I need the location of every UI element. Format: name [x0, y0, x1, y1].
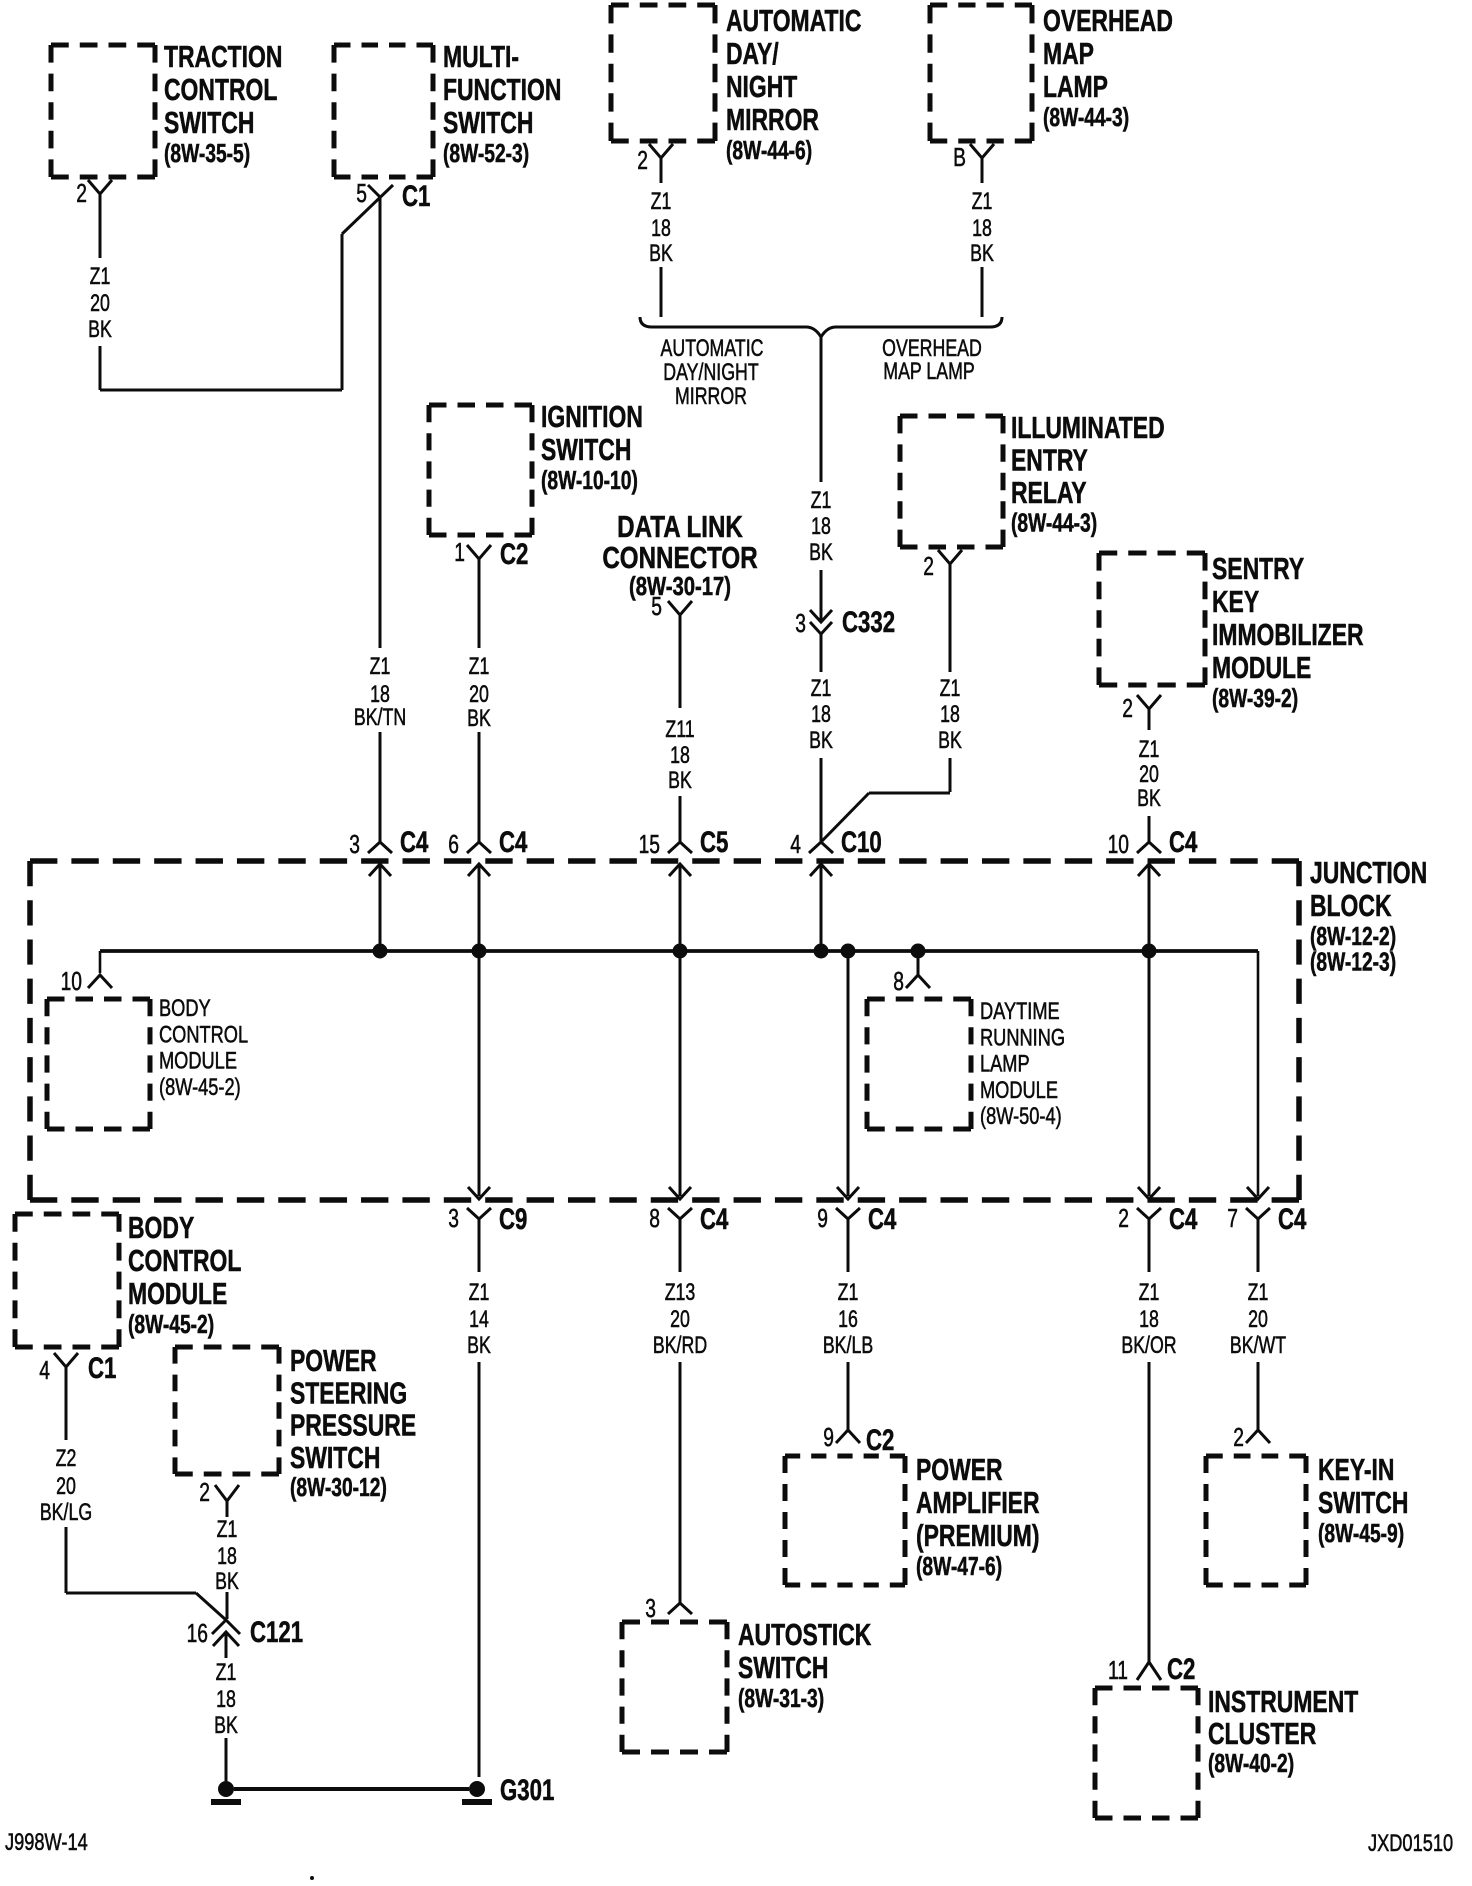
- wire label Z1 18 BK (below C332): [809, 676, 833, 754]
- svg-text:MAP LAMP: MAP LAMP: [883, 359, 974, 385]
- svg-text:(8W-45-9): (8W-45-9): [1318, 1518, 1404, 1548]
- svg-text:BK/TN: BK/TN: [354, 705, 406, 731]
- component Ignition Switch (8W-10-10) dashed box + label: [429, 399, 643, 535]
- in-line connector C121 pin 16: [187, 1615, 303, 1658]
- svg-text:LAMP: LAMP: [980, 1050, 1030, 1077]
- svg-text:MULTI-: MULTI-: [443, 39, 519, 74]
- pin 1 connector C2 of ignition switch: [454, 537, 528, 573]
- svg-text:2: 2: [76, 178, 87, 208]
- svg-text:MODULE: MODULE: [159, 1047, 237, 1074]
- svg-text:18: 18: [811, 514, 831, 540]
- pin 2 connector of traction control switch: [76, 178, 112, 208]
- svg-text:ENTRY: ENTRY: [1011, 442, 1088, 477]
- svg-text:DAYTIME: DAYTIME: [980, 998, 1060, 1025]
- node splice dot sentry wire on ground bus: [1142, 944, 1157, 959]
- wire label Z13 20 BK/RD: [653, 1280, 707, 1359]
- wire label Z1 18 BK (relay): [938, 676, 962, 754]
- svg-text:C1: C1: [88, 1351, 116, 1385]
- svg-text:C121: C121: [250, 1615, 303, 1649]
- svg-text:20: 20: [1139, 762, 1159, 788]
- svg-text:5: 5: [651, 591, 662, 621]
- wire from bus to junction block bottom pin 3 C9 (ignition column): [478, 951, 481, 1196]
- pin 2 connector of power steering pressure switch: [199, 1477, 239, 1515]
- svg-text:BK: BK: [809, 728, 833, 754]
- svg-text:(8W-45-2): (8W-45-2): [128, 1309, 214, 1339]
- wire Z1 18 BK from mirror pin 2 to splice brace: [660, 170, 663, 317]
- svg-text:Z1: Z1: [1139, 1280, 1160, 1306]
- svg-text:BK: BK: [88, 317, 112, 343]
- svg-text:BK: BK: [809, 540, 833, 566]
- pin 2 connector of automatic day/night mirror: [637, 144, 673, 175]
- wire label Z1 18 BK (mirror): [649, 189, 673, 267]
- svg-text:2: 2: [1122, 693, 1133, 723]
- svg-text:(PREMIUM): (PREMIUM): [916, 1518, 1040, 1553]
- pin B connector of overhead map lamp: [953, 142, 994, 172]
- wire label Z11 18 BK: [665, 717, 694, 794]
- junction block bottom connector pin 9 C4: [817, 1187, 896, 1236]
- svg-text:C4: C4: [400, 825, 429, 859]
- svg-text:BLOCK: BLOCK: [1310, 888, 1392, 923]
- svg-text:AUTOSTICK: AUTOSTICK: [738, 1617, 872, 1652]
- svg-text:C4: C4: [1169, 1202, 1198, 1236]
- wire Z1 18 BK from C121 to ground G301: [225, 1738, 228, 1781]
- svg-text:BODY: BODY: [128, 1210, 194, 1245]
- svg-text:BK: BK: [649, 241, 673, 267]
- svg-text:J998W-14: J998W-14: [5, 1829, 88, 1856]
- svg-text:4: 4: [39, 1355, 50, 1385]
- svg-text:FUNCTION: FUNCTION: [443, 72, 561, 107]
- svg-text:ILLUMINATED: ILLUMINATED: [1011, 410, 1165, 445]
- svg-text:C9: C9: [499, 1202, 527, 1236]
- svg-text:Z1: Z1: [1248, 1280, 1269, 1306]
- svg-text:SWITCH: SWITCH: [290, 1439, 380, 1474]
- junction block bottom connector pin 8 C4: [649, 1187, 728, 1236]
- svg-text:18: 18: [1139, 1307, 1159, 1333]
- svg-text:BK: BK: [215, 1569, 239, 1595]
- wire Z1 20 BK from traction control pin 2 to multi-function switch pin 5: [100, 185, 393, 390]
- svg-text:BK: BK: [467, 706, 491, 732]
- svg-text:3: 3: [645, 1593, 656, 1623]
- stray mark: [310, 1876, 314, 1880]
- component Daytime Running Lamp Module (8W-50-4) dashed box + label: [867, 998, 1065, 1130]
- wire Z1 14 BK from junction block pin 3 C9 to ground G301: [478, 1219, 481, 1777]
- svg-text:18: 18: [670, 743, 690, 769]
- pin 11 connector C2 of instrument cluster: [1108, 1652, 1195, 1686]
- component Multi-Function Switch (8W-52-3) dashed box + label: [334, 39, 561, 177]
- svg-text:4: 4: [790, 829, 801, 859]
- svg-text:(8W-35-5): (8W-35-5): [164, 138, 250, 168]
- svg-text:2: 2: [199, 1477, 210, 1507]
- svg-text:BK: BK: [1137, 786, 1161, 812]
- pin 5 connector C1 of multi-function switch: [356, 178, 430, 213]
- svg-text:8: 8: [649, 1203, 660, 1233]
- svg-text:RELAY: RELAY: [1011, 475, 1087, 510]
- svg-text:C2: C2: [500, 537, 528, 571]
- svg-text:(8W-50-4): (8W-50-4): [980, 1103, 1062, 1130]
- pin 4 connector C1 of body control module: [39, 1351, 116, 1385]
- wire Z1 18 BK/TN from multi-function switch pin 5 to junction block pin 3 C4: [379, 197, 382, 842]
- svg-text:3: 3: [349, 829, 360, 859]
- svg-text:Z1: Z1: [940, 676, 961, 702]
- node splice dot multi-function wire on ground bus: [373, 944, 388, 959]
- svg-text:1: 1: [454, 537, 465, 567]
- svg-text:IMMOBILIZER: IMMOBILIZER: [1212, 617, 1364, 652]
- wire label Z2 20 BK/LG: [40, 1446, 92, 1526]
- svg-text:C1: C1: [402, 179, 430, 213]
- in-line connector C332 pin 3: [795, 605, 895, 639]
- svg-text:18: 18: [216, 1687, 236, 1713]
- svg-text:2: 2: [1233, 1422, 1244, 1452]
- junction block bottom connector pin 3 C9: [448, 1187, 527, 1236]
- svg-text:2: 2: [637, 145, 648, 175]
- svg-text:Z1: Z1: [469, 1280, 490, 1306]
- wire label Z1 16 BK/LB: [823, 1280, 873, 1359]
- svg-text:20: 20: [90, 291, 110, 317]
- pin 2 connector of illuminated entry relay: [923, 550, 962, 581]
- svg-text:CONTROL: CONTROL: [128, 1243, 241, 1278]
- svg-text:(8W-30-17): (8W-30-17): [629, 572, 731, 601]
- svg-text:Z1: Z1: [217, 1517, 238, 1543]
- wire Z1 16 BK/LB from junction block pin 9 C4 to power amplifier: [847, 1219, 850, 1430]
- component Body Control Module (8W-45-2) inside junction block dashed box + label: [47, 995, 248, 1129]
- wire Z1 18 BK/OR from junction block pin 2 C4 to instrument cluster: [1148, 1219, 1151, 1662]
- svg-text:C4: C4: [700, 1202, 729, 1236]
- wire Z1 18 BK from C332 to junction block pin 4 C10: [820, 634, 823, 841]
- component Sentry Key Immobilizer Module (8W-39-2) dashed box + label: [1099, 551, 1364, 713]
- svg-text:BK: BK: [970, 241, 994, 267]
- svg-text:SWITCH: SWITCH: [1318, 1485, 1408, 1520]
- wire Z1 18 BK from map lamp pin B to splice brace: [981, 170, 984, 317]
- svg-text:(8W-39-2): (8W-39-2): [1212, 683, 1298, 713]
- svg-text:9: 9: [823, 1422, 834, 1452]
- svg-text:MIRROR: MIRROR: [675, 384, 747, 410]
- node splice dot data link wire on ground bus: [673, 944, 688, 959]
- svg-text:C2: C2: [866, 1423, 894, 1457]
- svg-text:BK/LG: BK/LG: [40, 1500, 92, 1526]
- junction block top connector pin 15 C5: [639, 825, 729, 951]
- svg-text:6: 6: [448, 829, 459, 859]
- svg-text:Z11: Z11: [665, 717, 694, 743]
- ground terminal left at G301: [211, 1781, 241, 1802]
- pin 5 connector of data link connector: [651, 591, 692, 629]
- svg-text:BODY: BODY: [159, 995, 211, 1022]
- wire label Z1 18 BK (map lamp): [970, 189, 994, 267]
- wire Z2 20 BK/LG from body control module pin 4 to connector C121: [66, 1381, 226, 1620]
- svg-text:AMPLIFIER: AMPLIFIER: [916, 1485, 1040, 1520]
- svg-text:B: B: [953, 142, 966, 172]
- svg-text:SWITCH: SWITCH: [164, 105, 254, 140]
- wire Z13 20 BK/RD from junction block pin 8 C4 to autostick switch: [679, 1219, 682, 1603]
- svg-text:Z1: Z1: [972, 189, 993, 215]
- svg-text:MODULE: MODULE: [128, 1276, 227, 1311]
- svg-text:DATA LINK: DATA LINK: [617, 509, 743, 544]
- junction block top connector pin 3 C4: [349, 825, 428, 951]
- svg-text:5: 5: [356, 178, 367, 208]
- svg-text:20: 20: [670, 1307, 690, 1333]
- splice brace joining mirror and map lamp wires: [640, 317, 1002, 410]
- svg-text:Z1: Z1: [216, 1660, 237, 1686]
- svg-text:CONTROL: CONTROL: [164, 72, 277, 107]
- svg-text:IGNITION: IGNITION: [541, 399, 643, 434]
- wire Z1 18 BK from splice brace to connector C332: [820, 337, 823, 620]
- svg-text:18: 18: [972, 216, 992, 242]
- ground G301 terminal and label: [462, 1773, 554, 1807]
- wire Z1 18 BK from illuminated entry relay to junction block pin 4 C10: [822, 578, 950, 841]
- svg-text:16: 16: [187, 1618, 208, 1648]
- wire label Z1 18 BK/TN: [354, 654, 406, 731]
- svg-text:OVERHEAD: OVERHEAD: [1043, 3, 1173, 38]
- svg-text:Z1: Z1: [651, 189, 672, 215]
- svg-text:BK: BK: [938, 728, 962, 754]
- svg-text:Z13: Z13: [665, 1280, 696, 1306]
- component Illuminated Entry Relay (8W-44-3) dashed box + label: [900, 410, 1165, 547]
- svg-text:DAY/: DAY/: [726, 36, 779, 71]
- svg-text:KEY-IN: KEY-IN: [1318, 1452, 1394, 1487]
- pin 3 connector of autostick switch: [645, 1593, 692, 1623]
- svg-text:C5: C5: [700, 825, 728, 859]
- svg-text:10: 10: [61, 966, 82, 996]
- wire label Z1 20 BK (traction): [88, 264, 112, 343]
- node splice dot ignition wire on ground bus: [472, 944, 487, 959]
- svg-text:C10: C10: [841, 825, 882, 859]
- component Automatic Day/Night Mirror (8W-44-6) dashed box + label: [611, 3, 861, 165]
- svg-text:BK: BK: [214, 1713, 238, 1739]
- wire label Z1 18 BK (below C121): [214, 1660, 238, 1739]
- pin 10 connector of body control module (junction block internal): [61, 966, 112, 996]
- junction block bottom connector pin 2 C4: [1118, 1187, 1197, 1236]
- svg-text:Z1: Z1: [838, 1280, 859, 1306]
- component Data Link Connector (8W-30-17) label: [602, 509, 757, 600]
- node splice dot daytime running lamp branch on ground bus: [911, 944, 926, 959]
- svg-text:SENTRY: SENTRY: [1212, 551, 1304, 586]
- wire ground bus between ground terminals: [234, 1787, 469, 1791]
- footer drawing number JXD01510: [1368, 1830, 1453, 1857]
- svg-text:AUTOMATIC: AUTOMATIC: [726, 3, 861, 38]
- svg-text:BK/WT: BK/WT: [1230, 1333, 1286, 1359]
- component Key-In Switch (8W-45-9) dashed box + label: [1206, 1452, 1408, 1585]
- svg-text:JXD01510: JXD01510: [1368, 1830, 1453, 1857]
- svg-text:Z1: Z1: [370, 654, 391, 680]
- wire ground bus inside junction block: [100, 951, 1258, 1196]
- svg-text:14: 14: [469, 1307, 489, 1333]
- wire Z1 20 BK/WT from junction block pin 7 C4 to key-in switch: [1257, 1219, 1260, 1430]
- svg-text:SWITCH: SWITCH: [443, 105, 533, 140]
- svg-text:MAP: MAP: [1043, 36, 1094, 71]
- svg-text:3: 3: [795, 608, 806, 638]
- svg-text:C332: C332: [842, 605, 895, 639]
- svg-text:AUTOMATIC: AUTOMATIC: [661, 336, 764, 362]
- svg-text:(8W-31-3): (8W-31-3): [738, 1683, 824, 1713]
- svg-text:PRESSURE: PRESSURE: [290, 1407, 416, 1442]
- svg-text:SWITCH: SWITCH: [541, 432, 631, 467]
- svg-text:STEERING: STEERING: [290, 1375, 407, 1410]
- svg-text:TRACTION: TRACTION: [164, 39, 282, 74]
- svg-text:G301: G301: [500, 1773, 554, 1807]
- svg-text:2: 2: [923, 551, 934, 581]
- wire label Z1 20 BK/WT: [1230, 1280, 1286, 1359]
- wire label Z1 20 BK (ignition): [467, 654, 491, 732]
- svg-text:MODULE: MODULE: [980, 1077, 1058, 1104]
- svg-text:20: 20: [1248, 1307, 1268, 1333]
- svg-text:Z1: Z1: [469, 654, 490, 680]
- component Power Steering Pressure Switch (8W-30-12) dashed box + label: [175, 1343, 416, 1502]
- svg-text:18: 18: [651, 216, 671, 242]
- component Instrument Cluster (8W-40-2) dashed box + label: [1095, 1684, 1359, 1818]
- svg-text:C4: C4: [868, 1202, 897, 1236]
- svg-text:MODULE: MODULE: [1212, 650, 1311, 685]
- junction block bottom connector pin 7 C4: [1227, 1187, 1306, 1236]
- junction block top connector pin 6 C4: [448, 825, 527, 951]
- svg-text:C4: C4: [499, 825, 528, 859]
- junction block top connector pin 4 C10: [790, 825, 881, 951]
- wire Z11 18 BK from data link connector to junction block pin 15 C5: [679, 629, 682, 842]
- node splice dot power amplifier branch on ground bus: [841, 944, 856, 959]
- svg-text:NIGHT: NIGHT: [726, 69, 798, 104]
- svg-text:INSTRUMENT: INSTRUMENT: [1208, 1684, 1359, 1719]
- wire from bus to junction block bottom pin 8 C4 (data link column): [679, 951, 682, 1196]
- component Junction Block (8W-12-2)(8W-12-3) large dashed box + label: [30, 855, 1427, 1200]
- svg-text:2: 2: [1118, 1203, 1129, 1233]
- wire from bus to junction block bottom pin 2 C4 (sentry column): [1148, 951, 1151, 1196]
- svg-text:CONTROL: CONTROL: [159, 1021, 248, 1048]
- svg-text:Z2: Z2: [56, 1446, 77, 1472]
- svg-text:(8W-40-2): (8W-40-2): [1208, 1748, 1294, 1778]
- wire label Z1 18 BK (above C332): [809, 488, 833, 566]
- svg-text:20: 20: [56, 1474, 76, 1500]
- svg-text:(8W-44-3): (8W-44-3): [1043, 102, 1129, 132]
- wire label Z1 18 BK (power steering): [215, 1517, 239, 1595]
- svg-text:(8W-44-6): (8W-44-6): [726, 135, 812, 165]
- svg-text:7: 7: [1227, 1203, 1238, 1233]
- svg-text:CLUSTER: CLUSTER: [1208, 1716, 1317, 1751]
- svg-text:Z1: Z1: [1139, 737, 1160, 763]
- svg-text:(8W-12-3): (8W-12-3): [1310, 947, 1396, 977]
- svg-text:(8W-52-3): (8W-52-3): [443, 138, 529, 168]
- svg-text:20: 20: [469, 682, 489, 708]
- svg-text:JUNCTION: JUNCTION: [1310, 855, 1427, 890]
- svg-text:8: 8: [893, 966, 904, 996]
- svg-text:C2: C2: [1167, 1652, 1195, 1686]
- wire from bus to junction block bottom pin 9 C4: [847, 951, 850, 1196]
- component Autostick Switch (8W-31-3) dashed box + label: [622, 1617, 872, 1752]
- svg-text:18: 18: [940, 702, 960, 728]
- svg-text:(8W-30-12): (8W-30-12): [290, 1472, 387, 1502]
- svg-text:Z1: Z1: [811, 676, 832, 702]
- svg-text:POWER: POWER: [290, 1343, 377, 1378]
- wire label Z1 14 BK: [467, 1280, 491, 1359]
- svg-text:RUNNING: RUNNING: [980, 1024, 1065, 1051]
- svg-text:LAMP: LAMP: [1043, 69, 1108, 104]
- svg-text:DAY/NIGHT: DAY/NIGHT: [663, 360, 758, 386]
- svg-text:(8W-10-10): (8W-10-10): [541, 465, 638, 495]
- wire label Z1 18 BK/OR: [1121, 1280, 1176, 1359]
- svg-text:POWER: POWER: [916, 1452, 1003, 1487]
- svg-text:SWITCH: SWITCH: [738, 1650, 828, 1685]
- component Traction Control Switch (8W-35-5) dashed box + label: [51, 39, 282, 177]
- wire label Z1 20 BK (sentry): [1137, 737, 1161, 812]
- svg-text:BK: BK: [668, 768, 692, 794]
- svg-text:16: 16: [838, 1307, 858, 1333]
- wire Z1 20 BK from ignition switch to junction block pin 6 C4: [478, 573, 481, 842]
- svg-text:10: 10: [1108, 829, 1129, 859]
- svg-text:BK/LB: BK/LB: [823, 1333, 873, 1359]
- wire Z1 20 BK from sentry key module to junction block pin 10 C4: [1148, 723, 1151, 842]
- wire Z1 18 BK from power steering pressure switch to connector C121: [226, 1514, 229, 1619]
- component Overhead Map Lamp (8W-44-3) dashed box + label: [930, 3, 1173, 141]
- svg-text:Z1: Z1: [811, 488, 832, 514]
- svg-text:BK: BK: [467, 1333, 491, 1359]
- svg-text:BK/RD: BK/RD: [653, 1333, 707, 1359]
- pin 9 connector C2 of power amplifier: [823, 1422, 894, 1457]
- svg-text:C4: C4: [1278, 1202, 1307, 1236]
- node splice dot C10 wire on ground bus: [814, 944, 829, 959]
- svg-text:(8W-45-2): (8W-45-2): [159, 1074, 241, 1101]
- component Power Amplifier (Premium) (8W-47-6) dashed box + label: [785, 1452, 1040, 1585]
- svg-text:11: 11: [1108, 1655, 1128, 1685]
- svg-text:KEY: KEY: [1212, 584, 1259, 619]
- pin 2 connector of key-in switch: [1233, 1422, 1270, 1452]
- pin 8 connector of daytime running lamp module: [893, 951, 930, 996]
- svg-text:9: 9: [817, 1203, 828, 1233]
- svg-text:(8W-44-3): (8W-44-3): [1011, 508, 1097, 538]
- component Body Control Module (8W-45-2) lower-left dashed box + label: [15, 1210, 241, 1347]
- svg-text:18: 18: [811, 702, 831, 728]
- svg-text:MIRROR: MIRROR: [726, 102, 819, 137]
- svg-text:18: 18: [217, 1544, 237, 1570]
- svg-text:C4: C4: [1169, 825, 1198, 859]
- svg-text:(8W-47-6): (8W-47-6): [916, 1551, 1002, 1581]
- svg-text:15: 15: [639, 829, 660, 859]
- svg-text:BK/OR: BK/OR: [1121, 1333, 1176, 1359]
- pin 2 connector of sentry key immobilizer module: [1122, 693, 1161, 723]
- svg-text:3: 3: [448, 1203, 459, 1233]
- junction block top connector pin 10 C4: [1108, 825, 1198, 951]
- svg-text:CONNECTOR: CONNECTOR: [602, 540, 757, 575]
- footer sheet number J998W-14: [5, 1829, 88, 1856]
- svg-text:Z1: Z1: [90, 264, 111, 290]
